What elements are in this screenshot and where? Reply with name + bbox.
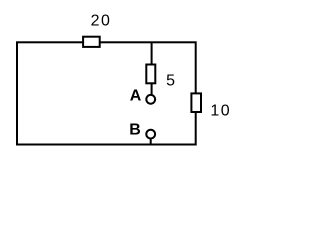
wire outer loop [17, 42, 196, 144]
resistor 20 [83, 37, 100, 47]
resistor 10 [191, 93, 201, 112]
svg-text:20: 20 [91, 13, 112, 30]
svg-text:10: 10 [210, 102, 231, 119]
wire branch to A [151, 42, 153, 94]
svg-text:A: A [130, 88, 142, 105]
resistor 5 [146, 65, 155, 84]
svg-text:B: B [129, 122, 141, 139]
wire stub B [150, 139, 152, 145]
terminal B [146, 130, 155, 139]
svg-text:5: 5 [166, 72, 175, 89]
terminal A [146, 95, 155, 104]
